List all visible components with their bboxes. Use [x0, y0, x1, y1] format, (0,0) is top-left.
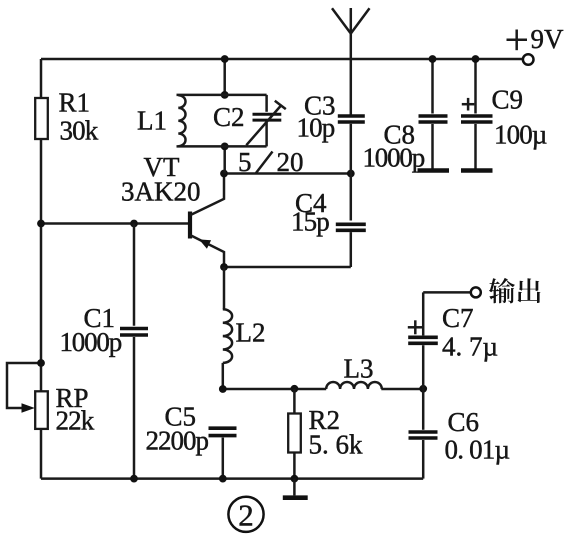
capacitor C4 [336, 174, 366, 268]
svg-text:4. 7µ: 4. 7µ [442, 332, 498, 362]
junction tank top [221, 91, 229, 99]
figure number 2 [228, 497, 263, 533]
svg-text:100µ: 100µ [494, 120, 547, 150]
svg-text:1000p: 1000p [60, 327, 122, 357]
svg-text:L1: L1 [137, 106, 167, 136]
junction C5 bottom [219, 475, 227, 483]
junction rail-C9 [472, 55, 480, 63]
label C3 10p [297, 91, 336, 143]
svg-text:C9: C9 [492, 85, 524, 115]
junction R2 bottom [291, 475, 299, 483]
resistor R1 [35, 98, 48, 139]
potentiometer RP [7, 363, 48, 429]
capacitor C3 [338, 116, 365, 174]
wire tank bottom [177, 145, 267, 148]
svg-text:30k: 30k [60, 116, 99, 146]
label +9V [507, 24, 565, 54]
resistor R2 [288, 389, 301, 479]
label output shu [489, 278, 515, 304]
label 5/20 [238, 147, 304, 177]
label C9 100u [492, 85, 547, 150]
junction L3-C7-C6 [419, 385, 427, 393]
junction C3-C4 node [347, 170, 355, 178]
svg-text:20: 20 [277, 147, 304, 177]
capacitor C1 [120, 224, 148, 479]
svg-text:L3: L3 [344, 354, 374, 384]
svg-text:C7: C7 [442, 303, 474, 333]
svg-text:5: 5 [238, 147, 252, 177]
svg-text:9V: 9V [531, 24, 565, 54]
wire tank top stub [223, 59, 226, 95]
svg-text:C6: C6 [448, 407, 480, 437]
inductor L2 [223, 267, 232, 389]
label C1 1000p [60, 303, 122, 357]
capacitor C7 [408, 292, 438, 388]
terminal +9V [523, 54, 534, 65]
svg-text:C2: C2 [213, 102, 245, 132]
junction C1 bottom [130, 475, 138, 483]
junction RP wiper [37, 359, 45, 367]
label C7 4.7u [442, 303, 498, 362]
transistor VT [190, 174, 224, 268]
junction collector [220, 170, 228, 178]
label R1 30k [59, 88, 99, 146]
inductor L1 [178, 95, 185, 146]
label C5 2200p [146, 402, 209, 456]
svg-text:2: 2 [238, 498, 254, 533]
label C6 0.01u [445, 407, 510, 465]
junction L2-C5 [219, 385, 227, 393]
label C8 1000p [363, 120, 425, 173]
junction rail-tank [221, 55, 229, 63]
svg-text:3AK20: 3AK20 [121, 177, 201, 207]
wire left rail [40, 59, 43, 479]
svg-text:2200p: 2200p [146, 426, 209, 456]
wire emitter return [224, 266, 351, 269]
wire tank bottom stub [223, 146, 226, 173]
junction base-left [37, 220, 45, 228]
label RP 22k [56, 383, 95, 436]
svg-text:15p: 15p [291, 207, 329, 237]
wire tank top [177, 94, 267, 97]
junction R2 top [291, 385, 299, 393]
junction emitter [220, 263, 228, 271]
wire +9V rail [41, 58, 523, 61]
svg-text:R1: R1 [59, 88, 91, 118]
antenna [332, 8, 370, 115]
terminal output [471, 287, 481, 297]
junction rail-C8 [429, 55, 437, 63]
capacitor C2 [246, 95, 285, 146]
wire collector node [224, 172, 351, 175]
svg-text:22k: 22k [56, 406, 95, 436]
svg-text:5. 6k: 5. 6k [309, 430, 364, 460]
svg-text:0. 01µ: 0. 01µ [445, 435, 510, 465]
capacitor C5 [209, 428, 237, 478]
label R2 5.6k [309, 405, 364, 460]
capacitor C9 [461, 59, 493, 171]
svg-text:10p: 10p [297, 113, 335, 143]
inductor L3 [326, 382, 382, 389]
capacitor C6 [409, 389, 438, 479]
wire output [423, 291, 471, 294]
wire mid rail [223, 388, 326, 391]
wire bottom rail [41, 477, 423, 480]
capacitor C8 [418, 59, 450, 171]
svg-text:L2: L2 [236, 318, 266, 348]
svg-text:1000p: 1000p [363, 143, 425, 173]
junction tank bottom [221, 143, 229, 151]
wire base line [41, 222, 189, 225]
label VT 3AK20 [121, 152, 201, 207]
label C4 15p [291, 188, 329, 237]
ground [283, 479, 308, 498]
label output chu [518, 278, 541, 303]
junction base-C1 [130, 220, 138, 228]
